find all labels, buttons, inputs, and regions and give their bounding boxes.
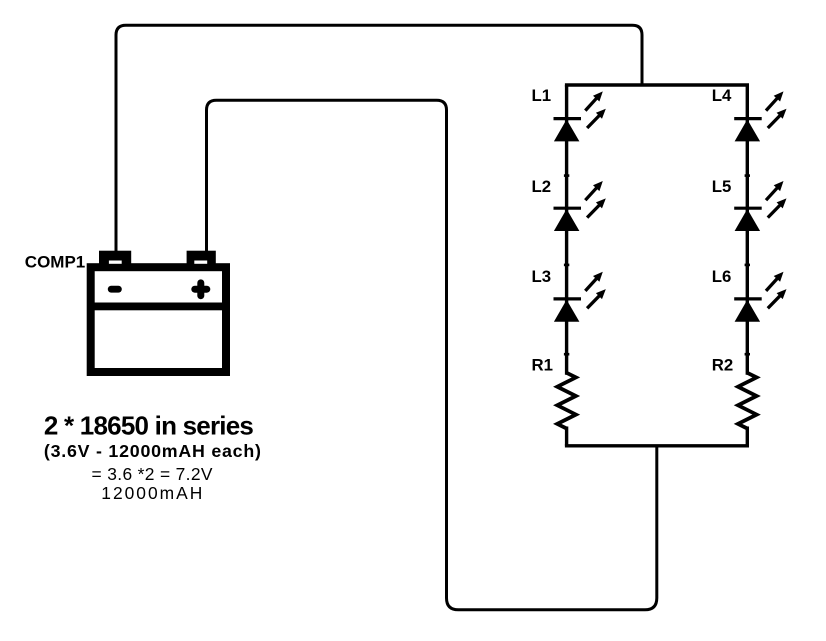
battery COMP1	[90, 251, 226, 372]
LED L2	[554, 181, 606, 231]
svg-text:L1: L1	[532, 86, 552, 105]
LED L6	[734, 272, 786, 322]
svg-text:COMP1: COMP1	[25, 253, 85, 272]
svg-text:L3: L3	[532, 267, 552, 286]
junction node branch1-1	[564, 174, 569, 177]
wire left branch lower	[565, 427, 568, 446]
wire battery positive to bottom rail junction	[207, 100, 657, 610]
junction node branch1-3	[564, 353, 569, 356]
svg-text:R1: R1	[532, 356, 553, 375]
svg-text:L6: L6	[712, 267, 732, 286]
wire left branch upper	[565, 85, 568, 375]
wire right branch upper	[746, 85, 749, 375]
LED L1	[554, 91, 606, 141]
resistor R2	[738, 373, 757, 429]
junction node branch2-1	[745, 174, 750, 177]
svg-text:L2: L2	[532, 177, 552, 196]
svg-text:2 * 18650 in series: 2 * 18650 in series	[44, 411, 254, 441]
svg-text:(3.6V - 12000mAH each): (3.6V - 12000mAH each)	[44, 441, 262, 461]
LED L4	[734, 91, 786, 141]
LED L5	[734, 181, 786, 231]
svg-text:L5: L5	[712, 177, 732, 196]
wire right branch lower	[746, 427, 749, 446]
junction node branch2-2	[745, 264, 750, 267]
svg-text:= 3.6 *2 = 7.2V: = 3.6 *2 = 7.2V	[92, 464, 213, 484]
svg-text:L4: L4	[712, 86, 732, 105]
LED L3	[554, 272, 606, 322]
wire battery negative to LED top rail	[116, 25, 642, 252]
junction node branch1-2	[564, 264, 569, 267]
wire top rail	[565, 83, 749, 86]
resistor R1	[557, 373, 576, 429]
wire bottom rail	[565, 444, 749, 447]
junction node branch2-3	[745, 353, 750, 356]
svg-text:R2: R2	[712, 356, 733, 375]
svg-text:12000mAH: 12000mAH	[101, 483, 204, 503]
